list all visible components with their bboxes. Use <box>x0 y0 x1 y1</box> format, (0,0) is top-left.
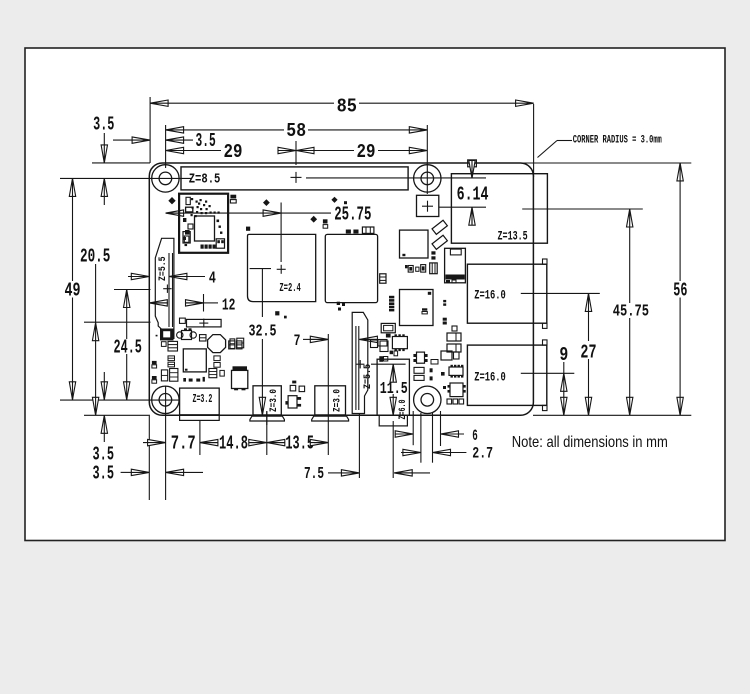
chipA SOIC <box>392 334 407 351</box>
svg-text:85: 85 <box>337 96 357 118</box>
comp above AV <box>381 323 395 337</box>
extension line hole column left top <box>165 125 167 168</box>
electrolytic cap <box>232 366 248 390</box>
extension line board left edge bottom <box>148 416 150 500</box>
dim 49 <box>65 178 81 399</box>
dim 58 <box>166 120 428 142</box>
dim 27 <box>580 293 596 415</box>
dim 29 right <box>296 141 427 163</box>
comps near CSI right <box>371 340 389 352</box>
dim 6 hole pad <box>395 411 478 446</box>
dim 7.7 <box>143 433 218 455</box>
caps left of hole BR <box>414 367 424 380</box>
inductor octagon <box>208 335 226 353</box>
dark row below PMIC <box>183 377 205 382</box>
extension line hole row top-left <box>60 177 192 179</box>
caps right of octagon <box>229 341 242 349</box>
dim 11.5 <box>371 364 408 415</box>
svg-text:Z=2.4: Z=2.4 <box>279 282 300 295</box>
SOIC chip near USB2 <box>449 365 463 378</box>
svg-text:27: 27 <box>580 342 596 364</box>
svg-text:6: 6 <box>472 427 478 445</box>
dim 7.5 <box>304 464 430 483</box>
tiny right of chipB <box>431 360 438 365</box>
usb column part a <box>443 300 446 306</box>
three squares below chip <box>447 399 464 404</box>
tiny right of caps <box>430 368 433 380</box>
extension line board left edge top <box>149 97 151 163</box>
dim 56 <box>673 163 687 415</box>
dim 85 <box>150 96 533 118</box>
edge pair b <box>152 376 157 383</box>
diamond below GPIO a <box>263 199 270 206</box>
svg-text:Z=6.0: Z=6.0 <box>397 400 409 420</box>
USB3 controller <box>400 290 434 326</box>
svg-text:Note: all dimensions in mm: Note: all dimensions in mm <box>512 434 668 451</box>
svg-text:45.75: 45.75 <box>613 302 649 321</box>
dim 3.5 bottom-left horizontal <box>93 463 204 485</box>
extension line USB1 center <box>521 292 600 294</box>
mounting hole bottom-left <box>152 386 179 413</box>
board outline <box>149 163 533 415</box>
sheet border <box>25 48 725 541</box>
ethernet magnetics <box>445 248 466 283</box>
diamond below GPIO b <box>310 216 317 223</box>
dots above RAM <box>346 230 359 234</box>
svg-text:29: 29 <box>357 141 376 163</box>
svg-text:14.8: 14.8 <box>219 433 248 455</box>
svg-text:56: 56 <box>673 279 687 301</box>
extension line hole column left bottom <box>165 386 167 500</box>
dim 12 <box>149 294 235 315</box>
comp right of PMIC <box>209 369 224 378</box>
micro HDMI1 Z=3.0 <box>312 386 349 421</box>
caps left of PMIC <box>168 356 175 367</box>
WiFi module <box>179 194 228 253</box>
caps right of PMIC <box>214 356 220 367</box>
bits below chipA <box>390 351 398 356</box>
dim 20.5 <box>80 246 110 416</box>
caps below left <box>161 369 178 382</box>
extension line USB2 center <box>521 372 575 374</box>
dim 7 <box>294 332 378 350</box>
marks below GPIO <box>331 197 347 205</box>
bits left of SOIC <box>441 372 446 389</box>
GPIO header Z=8.5 <box>181 167 408 190</box>
svg-text:Z=3.0: Z=3.0 <box>332 389 344 412</box>
svg-text:24.5: 24.5 <box>114 336 142 358</box>
tiny pair above RAM left <box>323 219 328 228</box>
extension line 24.5 row <box>114 289 151 291</box>
svg-text:3.5: 3.5 <box>93 463 115 485</box>
extension line hole row bottom <box>60 399 180 401</box>
svg-text:7: 7 <box>294 332 301 350</box>
extension line board bottom-left <box>84 414 150 416</box>
dim 9 <box>559 344 568 415</box>
squares right of WiFi <box>230 195 236 203</box>
extension line PoE row <box>439 206 486 208</box>
extension line SoC center column <box>280 203 282 263</box>
extension line CSI center <box>358 414 360 478</box>
extension line board bottom-right <box>533 414 691 416</box>
SMD between HDMIs <box>285 396 301 408</box>
USB stack 2 Z=16.0 <box>467 340 547 411</box>
crystal above RAM <box>362 227 374 233</box>
caps left of USB2 <box>422 308 427 314</box>
svg-text:58: 58 <box>286 120 306 142</box>
SD card outline <box>180 318 222 328</box>
chip below SOIC <box>448 383 466 397</box>
svg-text:7.5: 7.5 <box>304 464 324 483</box>
extension line USB-C center <box>199 421 201 456</box>
sq pair right of HDMI0 <box>290 381 304 392</box>
PoE header <box>417 195 439 216</box>
extension line ethernet center <box>522 208 643 210</box>
usb column part b <box>443 318 447 325</box>
tilted cap b <box>432 235 447 249</box>
tilted cap a <box>432 220 447 234</box>
usb column cap b <box>447 344 461 352</box>
caps below SOT <box>161 341 177 351</box>
mounting hole top-right <box>414 165 441 192</box>
USB stack 1 Z=16.0 <box>467 259 547 328</box>
usb column cap a <box>447 333 461 341</box>
dim 3.5 top-left vertical <box>93 114 114 206</box>
cap right of RAM <box>380 274 386 283</box>
dim 25.75 <box>166 204 372 226</box>
dark square above SoC <box>246 227 250 231</box>
dim 24.5 <box>114 290 142 400</box>
svg-text:25.75: 25.75 <box>334 204 371 226</box>
extension line GPIO mid column <box>295 141 297 165</box>
ethernet jack Z=13.5 <box>451 174 547 244</box>
svg-text:Z=16.0: Z=16.0 <box>474 371 506 385</box>
svg-text:3.5: 3.5 <box>93 114 114 136</box>
SDRAM <box>325 234 377 302</box>
svg-text:Z=13.5: Z=13.5 <box>498 230 528 244</box>
svg-text:29: 29 <box>224 141 243 163</box>
dim 29 left <box>166 141 296 163</box>
svg-text:Z=16.0: Z=16.0 <box>474 289 506 303</box>
pair below chipA <box>379 356 388 362</box>
dim 14.8 <box>219 433 267 455</box>
WiFi module components <box>183 197 225 248</box>
dim 3.5 top <box>113 130 216 152</box>
svg-text:12: 12 <box>222 296 236 315</box>
AV jack Z=6.0 <box>377 359 409 426</box>
svg-text:Z=3.2: Z=3.2 <box>193 392 213 406</box>
extension line AV center <box>392 421 394 478</box>
svg-text:CORNER RADIUS = 3.0mm: CORNER RADIUS = 3.0mm <box>573 135 662 147</box>
svg-text:3.5: 3.5 <box>196 130 216 152</box>
sq below SoC <box>275 311 279 315</box>
note text <box>512 434 668 451</box>
micro HDMI0 Z=3.0 <box>250 386 285 425</box>
dim 4 <box>128 269 216 288</box>
via stack <box>389 296 394 312</box>
extension line board top-right <box>520 162 691 164</box>
extension line board top-left <box>92 162 150 164</box>
svg-text:6.14: 6.14 <box>457 184 489 206</box>
SOT cluster <box>177 328 197 339</box>
usb column part c <box>441 351 459 360</box>
cap right of SOT <box>200 335 207 341</box>
extension line hole column right top <box>426 125 428 194</box>
edge pair a <box>152 361 157 368</box>
mounting hole top-left <box>152 165 179 192</box>
dim 13.5 <box>267 433 329 455</box>
dot below SoC <box>284 316 287 319</box>
comp left of chipA <box>378 340 387 347</box>
chipB SOT <box>413 352 427 363</box>
diamond near hole TL <box>168 197 175 204</box>
component row above eth magnetics <box>405 263 437 274</box>
extension line HDMI1 center <box>327 334 329 455</box>
dim 32.5 <box>249 269 277 416</box>
svg-text:13.5: 13.5 <box>285 433 314 455</box>
dim 45.75 <box>613 209 649 415</box>
dim 6.14 <box>457 160 489 225</box>
SoC Z=2.4 <box>248 234 316 301</box>
svg-text:Z=5.5: Z=5.5 <box>362 364 374 389</box>
svg-text:7.7: 7.7 <box>171 433 196 455</box>
mounting hole bottom-right <box>414 386 441 413</box>
CSI camera connector Z=5.5 <box>352 312 374 413</box>
caps pair left of HDMI0 <box>230 338 244 348</box>
extension line SD row <box>84 321 151 323</box>
svg-text:32.5: 32.5 <box>249 323 277 342</box>
svg-text:49: 49 <box>65 280 81 302</box>
comps left of HDMI1 <box>337 302 345 311</box>
bits below mid chip <box>431 251 435 259</box>
DSI display connector Z=5.5 <box>155 238 174 338</box>
PMIC <box>183 349 206 372</box>
svg-text:Z=5.5: Z=5.5 <box>157 256 169 281</box>
extension line board right edge top <box>533 104 535 177</box>
svg-text:Z=8.5: Z=8.5 <box>189 172 221 187</box>
usb column sq <box>452 326 457 331</box>
extension line hole row top-right <box>306 177 486 179</box>
dim 2.7 hole <box>401 413 493 463</box>
extension line HDMI0 center <box>266 411 268 455</box>
svg-text:2.7: 2.7 <box>472 444 493 462</box>
svg-text:4: 4 <box>209 269 216 288</box>
svg-text:Z=3.0: Z=3.0 <box>268 389 280 412</box>
corner radius callout <box>538 135 663 158</box>
comp below DSI <box>156 329 174 341</box>
USB-C power Z=3.2 <box>180 388 220 420</box>
mid chip <box>400 230 429 258</box>
dim 3.5 bottom-left vertical <box>93 372 115 466</box>
